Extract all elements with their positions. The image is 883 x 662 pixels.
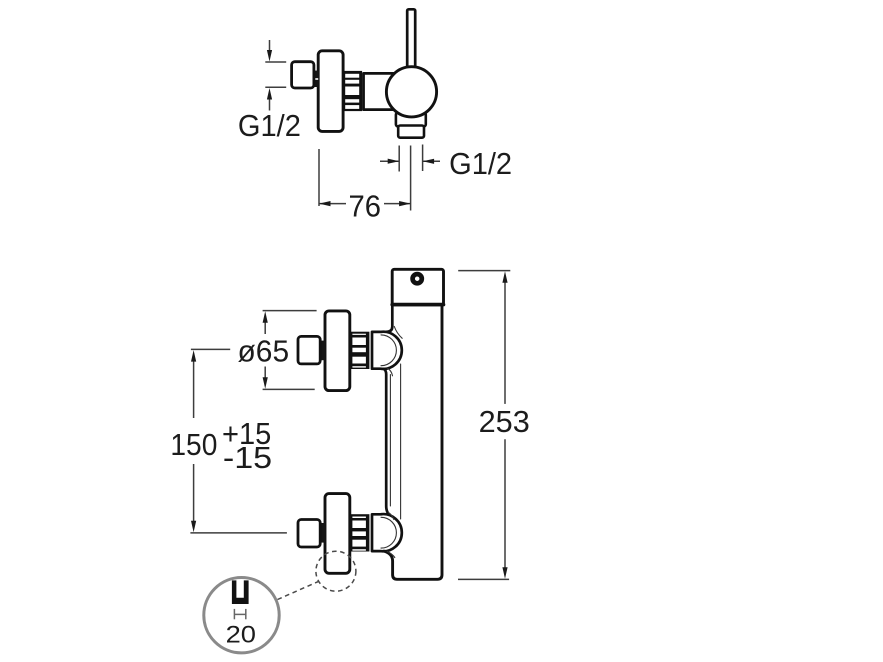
center extension line	[410, 146, 412, 211]
handle (top view lever)	[407, 9, 415, 69]
76 dimension line segments	[319, 203, 346, 205]
upper small square	[298, 336, 320, 364]
lower escutcheon	[325, 494, 350, 574]
valve body circle (top view)	[386, 67, 436, 117]
G1/2 outlet extension lines	[398, 146, 400, 172]
small G1/2 square (top view)	[292, 62, 314, 88]
G1/2 arrow tails	[380, 160, 399, 162]
knurl (top view)	[343, 71, 362, 111]
lower left shoulder into bottom section	[384, 306, 442, 579]
150 upper extension	[191, 348, 230, 350]
outlet right-pointing arrowhead	[388, 159, 400, 164]
253 bottom extension	[458, 578, 509, 580]
o65 top extension	[263, 310, 317, 312]
thin highlight contours	[381, 327, 402, 558]
253 down arrowhead	[502, 567, 507, 579]
body cap	[392, 269, 443, 305]
svg-text:253: 253	[479, 405, 530, 439]
150 down arrowhead	[191, 521, 196, 533]
up arrow shaft	[269, 99, 271, 111]
76 right arrowhead	[399, 201, 411, 206]
connector body rect between knurl and valve circle	[364, 73, 410, 109]
dashed target circle on lower escutcheon	[316, 551, 356, 591]
outlet nut	[398, 126, 424, 138]
253 top extension	[458, 270, 510, 272]
cap bottom thick line	[392, 303, 443, 307]
svg-text:ø65: ø65	[238, 334, 290, 368]
upper stub	[320, 341, 325, 361]
tick above square	[265, 61, 286, 63]
150 lower extension	[190, 532, 287, 534]
150 up arrowhead	[191, 350, 196, 362]
upper escutcheon	[325, 311, 350, 391]
dashed leader line	[278, 581, 321, 600]
svg-text:-15: -15	[223, 441, 272, 475]
o65 bottom extension	[263, 388, 315, 390]
76 left arrowhead	[319, 201, 331, 206]
o65 up arrowhead	[263, 311, 268, 323]
svg-text:20: 20	[226, 622, 256, 649]
detail slot section (U shape)	[232, 580, 249, 604]
stub between square and plate	[313, 71, 319, 87]
o65 dim shafts	[264, 322, 266, 334]
svg-text:G1/2: G1/2	[449, 147, 512, 181]
arrowheads (top view)	[267, 50, 434, 206]
upper connection tab/bulge	[372, 332, 402, 369]
arrowheads (front view)	[191, 271, 508, 578]
escutcheon plate (top view)	[318, 51, 343, 132]
down arrow shaft	[269, 40, 271, 50]
lower stub	[320, 523, 325, 543]
253 up arrowhead	[502, 271, 507, 283]
svg-text:76: 76	[349, 189, 382, 223]
253 dim shafts	[504, 282, 506, 404]
down arrowhead at square top	[267, 50, 272, 62]
left extension line for 76	[318, 149, 320, 206]
150 dim shafts	[193, 361, 195, 418]
detail circle (gray)	[204, 578, 279, 653]
lower small square	[298, 520, 320, 548]
lower knurl	[350, 514, 369, 551]
body main outline	[386, 305, 392, 332]
left edge between connections	[384, 369, 389, 515]
tick below square	[265, 86, 286, 88]
outlet neck (behind circle)	[396, 113, 426, 127]
upper knurl	[350, 332, 369, 369]
outlet left-pointing arrowhead	[423, 159, 435, 164]
20 dimension (H shape)	[234, 609, 245, 619]
screw	[413, 274, 422, 283]
svg-text:150: 150	[170, 428, 217, 462]
lower connection tab/bulge	[372, 514, 402, 551]
svg-text:G1/2: G1/2	[238, 109, 301, 143]
o65 down arrowhead	[263, 377, 268, 389]
up arrowhead at square bottom	[267, 88, 272, 100]
